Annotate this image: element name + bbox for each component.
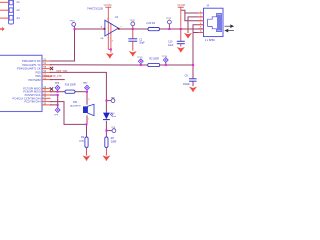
svg-text:PD0/UART1 RX: PD0/UART1 RX xyxy=(22,59,41,63)
svg-text:U1: U1 xyxy=(115,15,119,19)
svg-text:A2: A2 xyxy=(17,8,21,12)
svg-text:PD6_RXD_CTS: PD6_RXD_CTS xyxy=(45,75,63,78)
svg-text:PD4/SSI/UART1 CK: PD4/SSI/UART1 CK xyxy=(17,67,41,71)
svg-text:R2 200R: R2 200R xyxy=(149,58,159,61)
svg-text:VCOM: VCOM xyxy=(104,3,112,7)
svg-text:2.2K R1: 2.2K R1 xyxy=(146,22,155,25)
svg-text:PD1/UART1 TX: PD1/UART1 TX xyxy=(22,63,40,67)
svg-text:A3: A3 xyxy=(17,16,21,20)
svg-text:TP7: TP7 xyxy=(83,83,88,85)
svg-text:TP6: TP6 xyxy=(55,83,60,85)
svg-text:PC2/TIM CH4: PC2/TIM CH4 xyxy=(24,100,41,104)
svg-text:TP14: TP14 xyxy=(162,56,168,58)
svg-text:TP10: TP10 xyxy=(69,20,75,22)
svg-text:AI4228TW: AI4228TW xyxy=(70,104,81,107)
svg-text:OE: OE xyxy=(100,38,104,40)
svg-text:10uF: 10uF xyxy=(168,44,174,47)
svg-text:74HCT1G126: 74HCT1G126 xyxy=(87,7,104,11)
svg-text:PZ1: PZ1 xyxy=(73,101,78,104)
svg-text:20pF: 20pF xyxy=(139,41,145,44)
svg-text:1 x 6P6C: 1 x 6P6C xyxy=(205,39,215,42)
svg-text:PD5: PD5 xyxy=(36,70,42,74)
svg-text:4.7K: 4.7K xyxy=(79,140,84,143)
svg-text:A1: A1 xyxy=(17,0,21,4)
svg-text:200R: 200R xyxy=(111,140,117,143)
svg-text:VCOM: VCOM xyxy=(177,3,185,7)
svg-text:R16 200R: R16 200R xyxy=(65,83,76,86)
svg-text:PD7/SWM: PD7/SWM xyxy=(28,78,40,82)
svg-text:PD6: PD6 xyxy=(36,74,42,78)
svg-text:100pF: 100pF xyxy=(183,83,190,86)
